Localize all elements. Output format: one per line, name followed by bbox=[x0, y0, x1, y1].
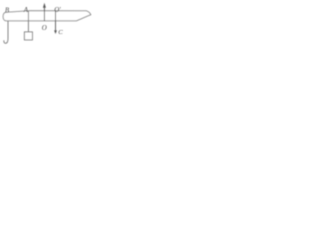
weight (square) hanging at A bbox=[24, 32, 32, 40]
svg-text:C: C bbox=[58, 29, 63, 36]
rod AB (tapered, rounded left cap, pointed right tip) bbox=[3, 11, 91, 21]
svg-text:O′: O′ bbox=[54, 7, 61, 14]
svg-text:O: O bbox=[42, 25, 47, 32]
node O: upward force arrow at O bbox=[43, 7, 45, 22]
node O': section line at O' with downward weight arrow to C bbox=[55, 11, 57, 31]
wire: string at B with hook bbox=[4, 21, 8, 43]
wire: string at A through rod to weight bbox=[27, 11, 29, 32]
svg-text:A: A bbox=[23, 7, 29, 14]
